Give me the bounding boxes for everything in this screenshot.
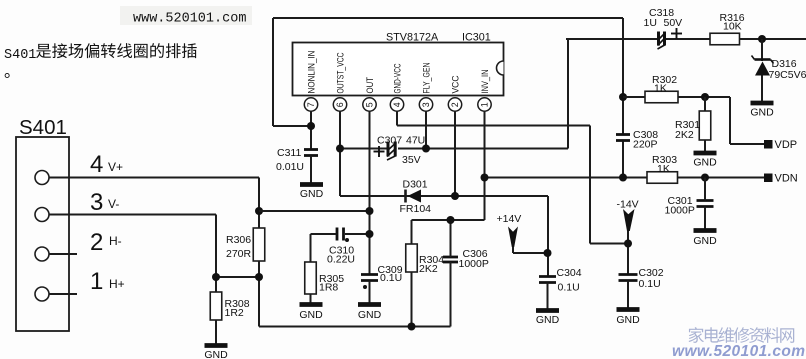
svg-text:S401: S401 [19,116,67,139]
svg-text:OUT: OUT [365,77,375,94]
svg-text:2K2: 2K2 [419,263,438,275]
svg-text:C304: C304 [557,267,582,279]
capacitor C306 [443,256,458,259]
node R308 junction [212,273,220,281]
svg-text:3: 3 [90,189,103,216]
resistor R302 [645,91,678,103]
svg-text:0.22U: 0.22U [327,254,355,266]
node VDN terminal [764,174,773,183]
ground under R308 [205,343,228,348]
resistor R316 [710,33,740,45]
node R302 left junction [619,93,627,101]
resistor R306 [253,228,265,261]
svg-text:D301: D301 [403,179,428,191]
wire pin1 H+ stub [49,293,77,295]
svg-text:GND: GND [299,309,323,321]
svg-text:1000P: 1000P [459,258,489,270]
node +14V-C304 junction [544,249,552,257]
svg-text:1K: 1K [657,163,670,175]
node C310-pin5 junction [366,230,374,238]
node R302 right junction [701,93,709,101]
wire R304-C306 top line [412,219,485,221]
wire bottom rail [259,326,451,328]
svg-text:H-: H- [109,234,122,248]
svg-text:OUTST_VCC: OUTST_VCC [335,52,345,93]
svg-text:GND: GND [693,235,717,247]
svg-text:220P: 220P [633,139,658,151]
wire pin6 vertical [339,111,341,196]
wire pin1 vertical [484,111,486,220]
node VDP terminal [764,140,773,149]
node pin7 junction [307,122,315,130]
svg-text:VDN: VDN [775,173,798,185]
supply -14V arrow [623,209,635,231]
svg-text:R306: R306 [226,234,251,246]
svg-text:1000P: 1000P [665,205,695,217]
svg-text:4: 4 [90,151,103,178]
S401 pin 1 circle [35,287,49,301]
node pin5-211 junction [366,207,374,215]
wire x623 drop [622,18,624,135]
resistor R308 [210,292,222,320]
svg-text:GND: GND [693,157,717,169]
capacitor C302 [619,273,638,276]
svg-text:0.01U: 0.01U [276,161,304,173]
node pin3-C307 junction [422,145,430,153]
svg-text:GND: GND [358,309,382,321]
svg-text:GND: GND [536,314,560,326]
capacitor C304 [539,275,556,278]
capacitor C311 [304,148,318,151]
S401 pin 3 circle [35,208,49,222]
ground under R301 [694,151,717,156]
ground under C309 [358,302,381,307]
svg-text:V-: V- [108,197,119,211]
svg-text:1K: 1K [654,83,667,95]
wire pin3 vertical [425,109,427,149]
svg-text:6: 6 [335,102,345,107]
node R303 right junction [701,174,709,182]
resistor R303 [647,172,678,184]
svg-text:www.520101.com: www.520101.com [672,343,805,359]
ground under C302 [617,307,640,312]
resistor R305 [305,262,317,294]
svg-text:0.1U: 0.1U [380,272,402,284]
svg-text:10K: 10K [723,21,742,33]
svg-text:4: 4 [392,102,402,107]
capacitor C310 [336,228,339,241]
svg-text:VCC: VCC [450,75,460,93]
capacitor C301 [697,199,714,202]
svg-text:50V: 50V [664,17,683,29]
wire pin7 vertical [310,111,312,149]
ground under R305 [300,302,323,307]
svg-text:GND: GND [750,107,774,119]
node R306 bottom junction [255,273,263,281]
svg-text:0.1U: 0.1U [639,278,661,290]
svg-text:H+: H+ [109,277,125,291]
svg-text:www.520101.com: www.520101.com [133,11,246,26]
ground under D316 [751,101,774,106]
wire C307 line [340,148,387,150]
wire VDP branch [729,97,731,144]
wire pin2 vertical [454,111,456,196]
svg-text:GND: GND [204,349,228,359]
capacitor C318 polarized [657,32,660,46]
svg-text:S401: S401 [4,48,36,63]
svg-text:-14V: -14V [617,199,639,211]
svg-text:FLY_GEN: FLY_GEN [421,63,431,94]
svg-text:V+: V+ [108,160,123,174]
ground under C304 [536,308,559,313]
node C310 speck [345,238,349,242]
wire C318 line [566,38,657,40]
wire pin3 V- to R308 [49,214,216,216]
svg-text:1: 1 [90,268,103,295]
svg-text:GND: GND [616,314,640,326]
svg-text:1U: 1U [644,17,657,29]
svg-text:C311: C311 [277,147,301,159]
plus mark C318 [671,33,682,35]
svg-text:1: 1 [480,102,490,107]
wire pin2 H- stub [49,253,77,255]
diode D301 [408,190,422,203]
svg-text:1R8: 1R8 [319,282,338,294]
wire FLY_GEN riser to C318 [567,39,569,149]
svg-text:IC301: IC301 [462,32,491,44]
svg-text:NONLIN_IN: NONLIN_IN [306,51,316,94]
op-amp IC301 box [293,43,504,96]
svg-text:2K2: 2K2 [675,129,694,141]
wire VDN line [485,177,648,179]
wire +14V drop to C304 [547,196,549,276]
svg-text:C307: C307 [377,135,402,147]
svg-text:7: 7 [306,102,316,107]
node C309 speck [363,285,367,289]
svg-text:+14V: +14V [497,213,522,225]
node C306 top junction [447,216,455,224]
node R304 bottom junction [408,323,416,331]
node R306 top junction [255,207,263,215]
wire GND-VCC line pin4 to -14V drop [397,125,590,127]
wire R306-R308 link [216,276,259,278]
connector S401 box [16,137,69,331]
svg-text:2: 2 [450,102,460,107]
watermark site name [689,327,795,343]
capacitor C308 [616,133,630,136]
zener diode D316 [761,39,763,61]
svg-text:5: 5 [365,102,375,107]
node R316-D316 junction [758,35,766,43]
IC301 notch [497,61,504,75]
node C308-VDN junction [619,174,627,182]
svg-text:VDP: VDP [775,139,798,151]
wire pin4 vertical [396,111,398,126]
diode D301 wire [340,195,548,197]
svg-text:FR104: FR104 [400,203,432,215]
note line 2: full stop [5,73,10,78]
supply +14V arrow [508,227,518,248]
capacitor C309 [361,273,378,276]
ground under C301 [694,228,717,233]
wire -14V to C302 [627,231,629,275]
svg-text:2: 2 [90,229,103,256]
svg-text:GND-VCC: GND-VCC [392,63,402,93]
plus mark C307 [374,151,385,153]
S401 pin 2 circle [35,247,49,261]
wire R306 to pin5 [259,210,370,212]
svg-text:GND: GND [300,188,324,200]
svg-text:STV8172A: STV8172A [386,32,439,44]
node pin2-D301 junction [451,192,459,200]
ground under C311 [300,182,323,187]
gray band behind header url [120,6,252,25]
svg-text:79C5V6: 79C5V6 [769,69,806,81]
resistor R304 [406,244,418,272]
svg-text:3: 3 [421,102,431,107]
svg-text:0.1U: 0.1U [558,282,580,294]
svg-text:270R: 270R [226,248,252,260]
wire pin4 V+ to R306 [49,177,259,179]
svg-text:1R2: 1R2 [225,307,244,319]
capacitor C307 polarized [387,142,390,157]
svg-text:47U: 47U [406,135,425,147]
svg-text:INV_IN: INV_IN [480,70,490,94]
wire feedback top rail [273,17,623,19]
wire pin5 vertical [369,111,371,274]
node pin1-VDN junction [481,174,489,182]
resistor R301 [699,111,711,140]
S401 pin 4 circle [35,171,49,185]
node -14V junction [624,240,632,248]
svg-text:35V: 35V [402,154,421,166]
node pin6-C307 junction [336,145,344,153]
